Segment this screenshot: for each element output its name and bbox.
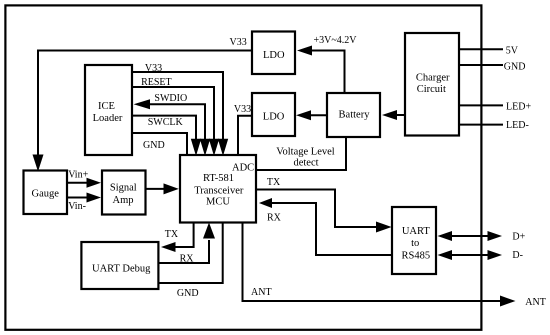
svg-text:GND: GND bbox=[143, 140, 165, 151]
arrowhead: RX into MCU right bbox=[259, 198, 272, 208]
arrowhead: V33 into MCU top bbox=[218, 139, 228, 156]
arrowhead: V33 into gauge top bbox=[33, 155, 44, 172]
wire: MCU ANT output bbox=[243, 222, 502, 301]
arrowhead: SWCLK into MCU top bbox=[191, 139, 201, 156]
svg-text:LED-: LED- bbox=[506, 120, 529, 131]
arrowhead: into LDO2 right bbox=[296, 110, 311, 120]
svg-text:to: to bbox=[411, 238, 419, 249]
svg-text:+3V~4.2V: +3V~4.2V bbox=[314, 35, 358, 46]
svg-text:LED+: LED+ bbox=[506, 101, 531, 112]
wire: signal amp to MCU bbox=[146, 188, 166, 190]
svg-text:D-: D- bbox=[512, 250, 523, 261]
svg-text:LDO: LDO bbox=[263, 112, 285, 123]
svg-text:Charger: Charger bbox=[416, 73, 450, 84]
wire: charger 5V pin bbox=[459, 48, 503, 50]
svg-text:Circuit: Circuit bbox=[417, 84, 446, 95]
svg-text:Loader: Loader bbox=[93, 113, 123, 124]
svg-text:RS485: RS485 bbox=[402, 251, 431, 262]
svg-text:RESET: RESET bbox=[141, 77, 172, 88]
svg-text:detect: detect bbox=[293, 158, 318, 169]
arrowhead: ANT to antenna bbox=[500, 296, 516, 307]
svg-text:Transceiver: Transceiver bbox=[194, 185, 244, 196]
battery bbox=[327, 93, 380, 137]
wire: ICE loader SWCLK to MCU bbox=[132, 116, 196, 140]
wire: gauge Vin+ to signal amp bbox=[67, 182, 88, 184]
wire: ICE loader RESET to MCU bbox=[132, 87, 214, 140]
svg-text:MCU: MCU bbox=[206, 197, 230, 208]
svg-text:GND: GND bbox=[177, 288, 199, 299]
arrowhead: D+ left bbox=[438, 231, 453, 241]
charger circuit bbox=[405, 33, 459, 136]
svg-text:V33: V33 bbox=[145, 63, 162, 74]
arrowhead: TX into UART-RS485 bbox=[376, 222, 392, 233]
svg-text:RT-581: RT-581 bbox=[203, 173, 234, 184]
svg-text:RX: RX bbox=[180, 254, 195, 265]
wire: RS485 D+ bidirectional bbox=[450, 235, 489, 237]
svg-text:Amp: Amp bbox=[113, 195, 134, 206]
UART debug bbox=[81, 242, 158, 289]
arrowhead: Vin- into signal amp bbox=[87, 193, 102, 203]
svg-text:GND: GND bbox=[504, 62, 526, 73]
svg-text:UART Debug: UART Debug bbox=[92, 263, 151, 274]
svg-text:UART: UART bbox=[402, 226, 431, 237]
svg-text:Signal: Signal bbox=[110, 182, 137, 193]
arrowhead: signal amp into MCU left bbox=[164, 183, 179, 194]
ICE loader bbox=[85, 65, 132, 155]
arrowhead: D- left bbox=[438, 250, 453, 260]
svg-text:ANT: ANT bbox=[525, 297, 546, 308]
gauge bbox=[24, 171, 68, 215]
svg-text:Voltage Level: Voltage Level bbox=[276, 146, 334, 157]
svg-text:V33: V33 bbox=[234, 104, 251, 115]
svg-text:ADC: ADC bbox=[232, 163, 254, 174]
svg-text:ICE: ICE bbox=[98, 101, 115, 112]
arrowhead: D- right bbox=[488, 250, 503, 260]
wire: charger GND pin bbox=[459, 64, 503, 66]
wire: RS485 D- bidirectional bbox=[450, 254, 489, 256]
regulator LDO2 bbox=[252, 93, 295, 136]
wire: LDO2 output V33 to MCU bbox=[238, 116, 252, 155]
wire: charger LED+ pin bbox=[459, 104, 503, 106]
signal amp bbox=[102, 171, 146, 215]
arrowhead: SWDIO into MCU top bbox=[200, 139, 210, 156]
wire: charger LED- pin bbox=[459, 124, 503, 126]
svg-text:TX: TX bbox=[165, 229, 179, 240]
svg-text:Vin+: Vin+ bbox=[68, 170, 88, 181]
svg-text:V33: V33 bbox=[230, 37, 247, 48]
svg-text:SWDIO: SWDIO bbox=[154, 93, 187, 104]
arrowhead: RESET into MCU top bbox=[209, 139, 219, 156]
wire: battery voltage level detect to MCU ADC bbox=[256, 137, 346, 170]
wire: ICE loader V33 to MCU bbox=[132, 72, 223, 140]
regulator LDO1 bbox=[252, 32, 295, 75]
wire: UART-RS485 RX to MCU bbox=[271, 203, 392, 255]
arrowhead: into LDO1 right bbox=[297, 46, 312, 56]
UART to RS485 bbox=[392, 207, 436, 274]
wire: MCU TX to UART debug bbox=[175, 222, 194, 247]
arrowhead: D+ right bbox=[488, 231, 503, 241]
wire: battery to LDO2 bbox=[310, 114, 327, 116]
svg-text:TX: TX bbox=[267, 177, 281, 188]
svg-text:Gauge: Gauge bbox=[31, 189, 59, 200]
arrowhead: SWDIO into ICE loader bbox=[134, 99, 150, 109]
MCU RT-581 transceiver bbox=[180, 155, 256, 223]
wire: gauge Vin- to signal amp bbox=[67, 197, 88, 199]
svg-text:SWCLK: SWCLK bbox=[148, 117, 184, 128]
svg-text:RX: RX bbox=[267, 213, 282, 224]
svg-text:Vin-: Vin- bbox=[68, 201, 86, 212]
wire: ICE loader GND to MCU bbox=[132, 133, 187, 155]
arrowhead: RX into MCU bottom bbox=[203, 223, 215, 239]
wire: MCU SWDIO to ICE loader bbox=[149, 104, 205, 140]
arrowhead: Vin+ into signal amp bbox=[87, 178, 102, 188]
wire: UART debug RX to MCU bbox=[158, 240, 209, 263]
svg-text:D+: D+ bbox=[512, 232, 525, 243]
svg-text:Battery: Battery bbox=[339, 109, 371, 120]
svg-text:5V: 5V bbox=[506, 46, 519, 57]
wire: MCU TX to UART-RS485 bbox=[256, 190, 377, 228]
arrowhead: into battery right bbox=[382, 110, 397, 120]
wire: charger to battery bbox=[396, 114, 405, 116]
wire: UART debug GND to MCU bbox=[158, 222, 222, 283]
svg-text:ANT: ANT bbox=[251, 287, 272, 298]
wire: LDO1 output V33 to gauge bbox=[38, 51, 251, 157]
wire: battery to LDO1 bbox=[311, 51, 345, 94]
arrowhead: TX into UART debug bbox=[161, 242, 176, 252]
svg-text:LDO: LDO bbox=[263, 50, 285, 61]
